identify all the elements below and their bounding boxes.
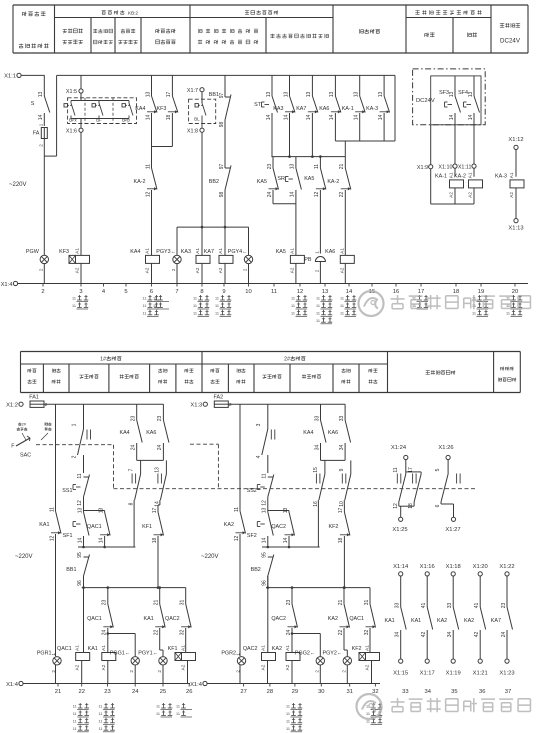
- svg-text:24: 24: [131, 445, 137, 451]
- svg-text:16: 16: [393, 289, 399, 295]
- svg-text:13: 13: [329, 92, 335, 98]
- svg-text:X1:10: X1:10: [438, 165, 452, 171]
- svg-text:PGW: PGW: [26, 249, 40, 255]
- svg-text:KA-3: KA-3: [366, 106, 378, 112]
- svg-text:8: 8: [200, 289, 203, 295]
- svg-text:KA6: KA6: [328, 430, 338, 436]
- svg-text:18: 18: [166, 115, 172, 121]
- svg-text:11: 11: [215, 297, 219, 301]
- svg-text:12: 12: [77, 500, 83, 506]
- svg-text:A2: A2: [289, 267, 294, 273]
- svg-text:X1:8: X1:8: [187, 129, 198, 135]
- svg-text:A1: A1: [75, 645, 80, 651]
- svg-text:11: 11: [99, 727, 103, 731]
- svg-text:12: 12: [393, 503, 399, 509]
- svg-text:24: 24: [267, 192, 273, 198]
- svg-text:11: 11: [286, 719, 290, 723]
- svg-text:PGG2←: PGG2←: [295, 650, 315, 656]
- svg-text:24: 24: [157, 445, 163, 451]
- svg-text:PGY4←: PGY4←: [228, 249, 248, 255]
- svg-text:11: 11: [291, 311, 295, 315]
- svg-text:FA: FA: [33, 131, 40, 137]
- svg-text:2: 2: [38, 144, 43, 147]
- svg-text:23: 23: [131, 416, 137, 422]
- svg-text:14: 14: [38, 115, 44, 121]
- svg-text:11: 11: [99, 719, 103, 723]
- svg-text:KA2: KA2: [328, 616, 338, 622]
- svg-text:S: S: [31, 101, 35, 107]
- svg-text:31: 31: [180, 600, 186, 606]
- svg-text:12: 12: [297, 289, 303, 295]
- svg-text:13: 13: [283, 508, 289, 514]
- svg-text:SF4: SF4: [458, 90, 468, 96]
- svg-text:1: 1: [236, 653, 241, 656]
- svg-text:11: 11: [143, 297, 147, 301]
- svg-text:7: 7: [129, 468, 135, 471]
- svg-text:14: 14: [283, 538, 289, 544]
- svg-text:11: 11: [316, 304, 320, 308]
- svg-text:17: 17: [166, 92, 172, 98]
- svg-text:PGR2: PGR2: [221, 650, 236, 656]
- svg-text:9: 9: [339, 468, 345, 471]
- svg-text:X1:27: X1:27: [445, 527, 460, 533]
- svg-text:2: 2: [243, 268, 248, 271]
- svg-text:24: 24: [286, 630, 292, 636]
- svg-text:13: 13: [98, 508, 104, 514]
- svg-text:KA4: KA4: [303, 430, 313, 436]
- svg-text:KF1: KF1: [168, 646, 178, 652]
- svg-text:11: 11: [153, 304, 157, 308]
- svg-text:X1:20: X1:20: [473, 564, 488, 570]
- svg-text:2: 2: [157, 670, 162, 673]
- svg-text:~220V: ~220V: [201, 554, 219, 560]
- svg-text:11: 11: [340, 297, 344, 301]
- svg-text:3: 3: [79, 289, 82, 295]
- svg-text:PB: PB: [304, 257, 312, 263]
- svg-text:X1:9: X1:9: [417, 165, 428, 171]
- svg-text:11: 11: [77, 473, 83, 478]
- svg-text:KA4: KA4: [130, 249, 140, 255]
- svg-text:KA-2: KA-2: [327, 179, 339, 185]
- svg-text:QAC2: QAC2: [271, 616, 286, 622]
- svg-text:X1:16: X1:16: [420, 564, 435, 570]
- svg-text:96: 96: [261, 580, 267, 586]
- svg-text:17: 17: [418, 289, 424, 295]
- svg-text:KA5: KA5: [304, 176, 314, 182]
- svg-text:11: 11: [153, 297, 157, 301]
- svg-text:97: 97: [219, 93, 225, 99]
- svg-text:KA6: KA6: [325, 249, 335, 255]
- svg-text:28: 28: [267, 689, 273, 695]
- svg-text:12: 12: [145, 192, 151, 198]
- svg-text:19: 19: [478, 289, 484, 295]
- svg-text:X1:15: X1:15: [393, 671, 408, 677]
- svg-text:27: 27: [240, 689, 246, 695]
- svg-text:11: 11: [291, 297, 295, 301]
- svg-text:X1:25: X1:25: [392, 527, 407, 533]
- svg-text:DC24V: DC24V: [500, 38, 521, 45]
- svg-text:X1:6: X1:6: [66, 129, 77, 135]
- svg-text:14: 14: [468, 115, 474, 121]
- svg-text:11: 11: [271, 289, 277, 295]
- svg-text:95: 95: [77, 552, 83, 558]
- svg-text:23: 23: [157, 416, 163, 422]
- svg-text:QAC2: QAC2: [243, 646, 258, 652]
- svg-text:A1: A1: [261, 645, 266, 651]
- svg-text:11: 11: [145, 164, 151, 169]
- svg-text:KA7: KA7: [204, 249, 214, 255]
- svg-text:33: 33: [447, 603, 453, 609]
- svg-text:3: 3: [256, 423, 262, 426]
- svg-text:24: 24: [501, 632, 507, 638]
- svg-text:2: 2: [341, 670, 346, 673]
- svg-text:14: 14: [262, 538, 268, 544]
- svg-text:14: 14: [290, 192, 296, 198]
- svg-text:KF2: KF2: [329, 524, 339, 530]
- svg-text:11: 11: [73, 705, 77, 709]
- svg-text:2: 2: [72, 455, 78, 458]
- svg-text:12: 12: [49, 536, 55, 542]
- svg-text:29: 29: [292, 689, 298, 695]
- svg-text:A1: A1: [218, 248, 223, 254]
- svg-text:1: 1: [315, 251, 320, 254]
- svg-text:11: 11: [176, 705, 180, 709]
- svg-text:KA6: KA6: [146, 430, 156, 436]
- svg-text:KA3: KA3: [181, 249, 191, 255]
- svg-text:A2: A2: [218, 267, 223, 273]
- svg-text:#: #: [24, 423, 26, 427]
- svg-text:2: 2: [38, 268, 43, 271]
- svg-text:PGG1←: PGG1←: [110, 650, 130, 656]
- svg-text:23: 23: [286, 600, 292, 606]
- svg-text:6: 6: [150, 289, 153, 295]
- svg-text:KA3: KA3: [273, 106, 283, 112]
- svg-text:14: 14: [145, 115, 151, 121]
- svg-text:11: 11: [143, 304, 147, 308]
- svg-text:KA4: KA4: [119, 430, 129, 436]
- svg-text:X1:18: X1:18: [446, 564, 461, 570]
- svg-text:X1:5: X1:5: [66, 89, 77, 95]
- svg-text:5: 5: [124, 289, 127, 295]
- svg-text:11: 11: [393, 467, 399, 472]
- svg-text:33: 33: [402, 689, 408, 695]
- svg-text:11: 11: [73, 719, 77, 723]
- svg-text:KA1: KA1: [143, 616, 153, 622]
- svg-text:11: 11: [143, 311, 147, 315]
- svg-text:2: 2: [171, 268, 176, 271]
- svg-text:11: 11: [314, 164, 320, 169]
- svg-text:KA2: KA2: [437, 618, 447, 624]
- svg-text:42: 42: [474, 632, 480, 638]
- svg-text:KA-2: KA-2: [134, 179, 146, 185]
- svg-text:A1: A1: [285, 645, 290, 651]
- svg-text:A2: A2: [195, 267, 200, 273]
- svg-text:13: 13: [290, 164, 296, 170]
- svg-text:11: 11: [261, 473, 267, 478]
- svg-text:23: 23: [102, 600, 108, 606]
- svg-text:FA1: FA1: [29, 395, 39, 401]
- svg-text:A2: A2: [75, 267, 80, 273]
- svg-text:32: 32: [364, 630, 370, 636]
- svg-text:13: 13: [38, 92, 44, 98]
- svg-text:20: 20: [512, 289, 518, 295]
- svg-text:11: 11: [234, 507, 240, 512]
- svg-text:KF1: KF1: [142, 524, 152, 530]
- svg-text:A1: A1: [145, 248, 150, 254]
- svg-text:18: 18: [338, 538, 344, 544]
- svg-text:37: 37: [505, 689, 511, 695]
- svg-text:13: 13: [283, 92, 289, 98]
- svg-text:11: 11: [72, 297, 76, 301]
- svg-text:13: 13: [378, 92, 384, 98]
- svg-text:13: 13: [306, 92, 312, 98]
- svg-text:10: 10: [245, 289, 251, 295]
- svg-text:12: 12: [234, 536, 240, 542]
- svg-text:36: 36: [479, 689, 485, 695]
- svg-text:14: 14: [378, 115, 384, 121]
- svg-text:KA-1: KA-1: [435, 173, 447, 179]
- svg-text:BB1: BB1: [209, 92, 219, 98]
- svg-text:17: 17: [152, 508, 158, 514]
- svg-text:A2: A2: [261, 664, 266, 670]
- svg-text:ST: ST: [254, 102, 262, 108]
- svg-text:34: 34: [339, 445, 345, 451]
- svg-text:11: 11: [286, 727, 290, 731]
- svg-text:11: 11: [156, 712, 160, 716]
- svg-text:A1: A1: [181, 645, 186, 651]
- svg-text:13: 13: [354, 92, 360, 98]
- svg-text:KA-1: KA-1: [342, 106, 354, 112]
- svg-text:BB2: BB2: [251, 567, 261, 573]
- svg-text:2: 2: [129, 670, 134, 673]
- svg-text:A1: A1: [195, 248, 200, 254]
- svg-text:X1:14: X1:14: [393, 564, 409, 570]
- svg-text:14: 14: [306, 115, 312, 121]
- svg-text:21: 21: [338, 600, 344, 606]
- svg-text:X1:19: X1:19: [446, 671, 461, 677]
- svg-text:13: 13: [468, 92, 474, 98]
- svg-text:11: 11: [340, 311, 344, 315]
- svg-text:14: 14: [77, 538, 83, 544]
- svg-text:13: 13: [449, 92, 455, 98]
- svg-text:KF2: KF2: [352, 646, 362, 652]
- svg-text:A1: A1: [449, 172, 454, 178]
- svg-text:SF2: SF2: [247, 533, 257, 539]
- svg-text:11: 11: [49, 507, 55, 512]
- svg-text:X1:3: X1:3: [190, 403, 202, 409]
- svg-text:98: 98: [219, 122, 225, 128]
- svg-text:22: 22: [154, 630, 160, 636]
- svg-text:X1:4: X1:4: [1, 282, 14, 288]
- svg-text:6: 6: [435, 504, 441, 507]
- svg-text:23: 23: [501, 603, 507, 609]
- svg-text:KF3: KF3: [157, 106, 167, 112]
- svg-text:2: 2: [315, 269, 320, 272]
- svg-text:KA2: KA2: [464, 618, 474, 624]
- svg-text:2: 2: [41, 289, 44, 295]
- svg-text:A2: A2: [339, 267, 344, 273]
- svg-text:X1:17: X1:17: [420, 671, 435, 677]
- svg-text:14: 14: [354, 115, 360, 121]
- svg-text:QAC2: QAC2: [271, 524, 286, 530]
- svg-text:13: 13: [154, 467, 160, 473]
- svg-text:A1: A1: [365, 645, 370, 651]
- svg-text:KA1: KA1: [88, 646, 98, 652]
- svg-text:4: 4: [256, 455, 262, 458]
- svg-text:11: 11: [286, 705, 290, 709]
- svg-text:11: 11: [73, 727, 77, 731]
- svg-text:X1:24: X1:24: [391, 445, 407, 451]
- svg-text:22: 22: [339, 192, 345, 198]
- svg-text:98: 98: [219, 192, 225, 198]
- svg-text:FA2: FA2: [214, 395, 224, 401]
- svg-text:A2: A2: [75, 664, 80, 670]
- svg-text:11: 11: [193, 297, 197, 301]
- svg-text:11: 11: [316, 311, 320, 315]
- svg-text:KA5: KA5: [257, 179, 267, 185]
- svg-text:X1:2: X1:2: [6, 403, 18, 409]
- svg-text:PGY1←: PGY1←: [138, 650, 158, 656]
- svg-text:DC24V: DC24V: [416, 98, 435, 104]
- svg-text:A1: A1: [339, 248, 344, 254]
- svg-text:11: 11: [99, 705, 103, 709]
- svg-text:1: 1: [38, 123, 43, 126]
- svg-text:30: 30: [318, 689, 324, 695]
- svg-text:13: 13: [145, 92, 151, 98]
- svg-text:X1:4: X1:4: [190, 682, 203, 688]
- svg-text:PGR1: PGR1: [37, 650, 52, 656]
- svg-text:21: 21: [339, 164, 345, 170]
- svg-text:31: 31: [364, 600, 370, 606]
- svg-text:11: 11: [99, 712, 103, 716]
- svg-text:24: 24: [132, 689, 139, 695]
- svg-text:11: 11: [193, 304, 197, 308]
- svg-text:X1:21: X1:21: [473, 671, 488, 677]
- svg-text:A2: A2: [285, 664, 290, 670]
- svg-text:11: 11: [316, 297, 320, 301]
- svg-text:11: 11: [472, 311, 476, 315]
- svg-text:9: 9: [222, 289, 225, 295]
- svg-text:QAC1: QAC1: [349, 616, 364, 622]
- svg-text:QAC1: QAC1: [57, 646, 72, 652]
- svg-text:11: 11: [506, 311, 510, 315]
- svg-text:SS1: SS1: [62, 488, 72, 494]
- svg-text:1: 1: [72, 423, 78, 426]
- svg-text:31: 31: [346, 689, 352, 695]
- svg-text:BB1: BB1: [66, 567, 76, 573]
- svg-text:X1:11: X1:11: [458, 165, 472, 171]
- svg-text:KA1: KA1: [39, 522, 49, 528]
- svg-text:A2: A2: [101, 664, 106, 670]
- svg-text:11: 11: [72, 304, 76, 308]
- svg-text:QAC1: QAC1: [87, 616, 102, 622]
- svg-text:#: #: [103, 357, 106, 363]
- svg-text:KA2: KA2: [272, 646, 282, 652]
- svg-text:14: 14: [266, 115, 272, 121]
- svg-text:SF3: SF3: [439, 90, 449, 96]
- svg-text:97: 97: [219, 164, 225, 170]
- svg-text:22: 22: [338, 630, 344, 636]
- svg-text:X1:7: X1:7: [187, 88, 198, 94]
- svg-text:11: 11: [156, 705, 160, 709]
- svg-text:12: 12: [261, 500, 267, 506]
- svg-text:X1:1: X1:1: [4, 74, 16, 80]
- svg-text:22: 22: [78, 689, 84, 695]
- svg-text:15: 15: [313, 467, 319, 473]
- svg-text:13: 13: [266, 92, 272, 98]
- svg-text:14: 14: [346, 289, 353, 295]
- svg-text:A2: A2: [468, 192, 473, 198]
- svg-text:42: 42: [421, 632, 427, 638]
- svg-text:X1:13: X1:13: [508, 226, 523, 232]
- svg-text:23: 23: [267, 164, 273, 170]
- svg-text:17: 17: [408, 467, 414, 473]
- svg-text:A2: A2: [509, 192, 514, 198]
- svg-text:X1:22: X1:22: [499, 564, 514, 570]
- svg-text:SR: SR: [277, 176, 285, 182]
- svg-text:13: 13: [322, 289, 328, 295]
- svg-text:X1:4: X1:4: [6, 682, 19, 688]
- svg-text:21: 21: [55, 689, 61, 695]
- svg-text:14: 14: [449, 115, 455, 121]
- svg-text:A2: A2: [181, 664, 186, 670]
- svg-text:26: 26: [186, 689, 192, 695]
- svg-text:34: 34: [447, 632, 453, 638]
- svg-text:A2: A2: [449, 192, 454, 198]
- svg-text:17: 17: [338, 508, 344, 514]
- svg-text:X1:23: X1:23: [499, 671, 514, 677]
- svg-text:A1: A1: [75, 248, 80, 254]
- svg-text:18: 18: [453, 289, 459, 295]
- svg-text:11: 11: [176, 712, 180, 716]
- svg-text:11: 11: [316, 319, 320, 323]
- svg-text:~220V: ~220V: [15, 554, 33, 560]
- svg-text:KA2: KA2: [224, 522, 234, 528]
- svg-text:21: 21: [154, 600, 160, 606]
- svg-text:A2: A2: [365, 664, 370, 670]
- svg-text:KF3: KF3: [59, 249, 69, 255]
- svg-text:A1: A1: [289, 248, 294, 254]
- svg-text:PGY2←: PGY2←: [323, 650, 343, 656]
- svg-text:11: 11: [215, 304, 219, 308]
- svg-text:11: 11: [291, 304, 295, 308]
- svg-text:KA-3: KA-3: [495, 173, 507, 179]
- svg-text:14: 14: [98, 538, 104, 544]
- svg-text:24: 24: [102, 630, 108, 636]
- svg-text:KA6: KA6: [319, 106, 329, 112]
- svg-text:41: 41: [474, 603, 480, 609]
- svg-text:14: 14: [329, 115, 335, 121]
- svg-text:95: 95: [261, 552, 267, 558]
- svg-text:KA-2: KA-2: [454, 173, 466, 179]
- svg-text:SF1: SF1: [63, 533, 73, 539]
- svg-text:33: 33: [314, 416, 320, 422]
- svg-text:X1:12: X1:12: [508, 137, 523, 143]
- svg-text:KA1: KA1: [384, 618, 394, 624]
- svg-text:KA7: KA7: [491, 618, 501, 624]
- svg-text:QAC2: QAC2: [165, 616, 180, 622]
- svg-text:96: 96: [77, 580, 83, 586]
- svg-text:A1: A1: [509, 172, 514, 178]
- svg-text:2: 2: [314, 670, 319, 673]
- svg-text:41: 41: [421, 603, 427, 609]
- svg-text:34: 34: [314, 445, 320, 451]
- svg-text:23: 23: [104, 689, 110, 695]
- svg-text:KA1: KA1: [411, 618, 421, 624]
- svg-text:A1: A1: [468, 172, 473, 178]
- svg-text:11: 11: [340, 304, 344, 308]
- svg-text:7: 7: [175, 289, 178, 295]
